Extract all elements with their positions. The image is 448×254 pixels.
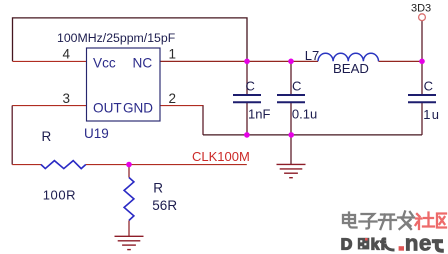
wire pin1 NC to coil: [160, 60, 319, 62]
she: [416, 213, 435, 230]
resistor R1 100R zigzag: [41, 161, 86, 169]
capacitor C3 1u plates: [408, 95, 436, 102]
capacitor C2 0.1u plates: [277, 95, 305, 102]
ground symbol under R 56R: [115, 236, 144, 249]
svg-text:2: 2: [169, 91, 177, 106]
watermark chinese characters: [343, 212, 414, 230]
wire pin3 OUT to left drop: [12, 105, 87, 107]
svg-text:C: C: [292, 79, 301, 94]
watermark logo DZKF.net: [341, 231, 444, 254]
kai: [379, 215, 396, 230]
wire cap C 0.1u legs: [290, 61, 292, 94]
wire coil to 3D3 node: [379, 60, 423, 62]
svg-text:56R: 56R: [152, 198, 177, 213]
inductor L7 coil: [318, 53, 378, 61]
wire cap C 1u top leg: [421, 61, 423, 94]
oscillator U19 body: [87, 48, 161, 121]
svg-text:U19: U19: [84, 126, 109, 141]
dian: [343, 213, 357, 228]
svg-text:NC: NC: [133, 55, 153, 70]
svg-text:3D3: 3D3: [411, 3, 431, 15]
capacitor C1 1nF plates: [233, 95, 261, 102]
svg-text:1nF: 1nF: [248, 107, 270, 122]
svg-text:L7: L7: [305, 48, 319, 63]
fa: [398, 212, 414, 230]
zi: [360, 214, 377, 229]
svg-text:ne: ne: [405, 231, 432, 254]
ground symbol mid: [277, 164, 306, 177]
svg-text:D: D: [341, 236, 353, 253]
svg-text:R: R: [153, 180, 163, 195]
svg-text:C: C: [424, 79, 433, 94]
wire Vcc top loop: [13, 18, 248, 61]
wire 3D3 drop: [421, 21, 423, 62]
svg-text:BEAD: BEAD: [333, 61, 369, 76]
svg-text:R: R: [42, 129, 52, 144]
wire ground lead mid: [290, 135, 292, 164]
resistor R2 56R zigzag: [124, 178, 134, 221]
wire R 100R to CLK100M end: [86, 164, 247, 166]
svg-text:Vcc: Vcc: [93, 55, 116, 70]
wire R 56R top lead: [128, 165, 130, 178]
svg-text:CLK100M: CLK100M: [192, 149, 250, 164]
svg-text:OUT: OUT: [93, 100, 122, 115]
wire cap C 1nF legs: [246, 61, 248, 94]
svg-text:3: 3: [63, 91, 71, 106]
wire pin4 to U19: [13, 60, 88, 62]
svg-text:100R: 100R: [43, 188, 76, 203]
junction node dots: [126, 59, 425, 168]
power port 3D3 circle: [419, 14, 426, 21]
wire R 56R bottom lead: [128, 220, 130, 236]
qu: [437, 214, 446, 228]
svg-text:0.1u: 0.1u: [292, 107, 317, 122]
svg-text:100MHz/25ppm/15pF: 100MHz/25ppm/15pF: [57, 31, 176, 45]
svg-text:1u: 1u: [423, 107, 440, 122]
wire pin2 GND bottom bus to cap 1u: [160, 105, 204, 107]
svg-text:GND: GND: [123, 100, 153, 115]
svg-text:C: C: [246, 79, 255, 94]
svg-text:1: 1: [169, 47, 177, 62]
svg-text:4: 4: [63, 47, 71, 62]
